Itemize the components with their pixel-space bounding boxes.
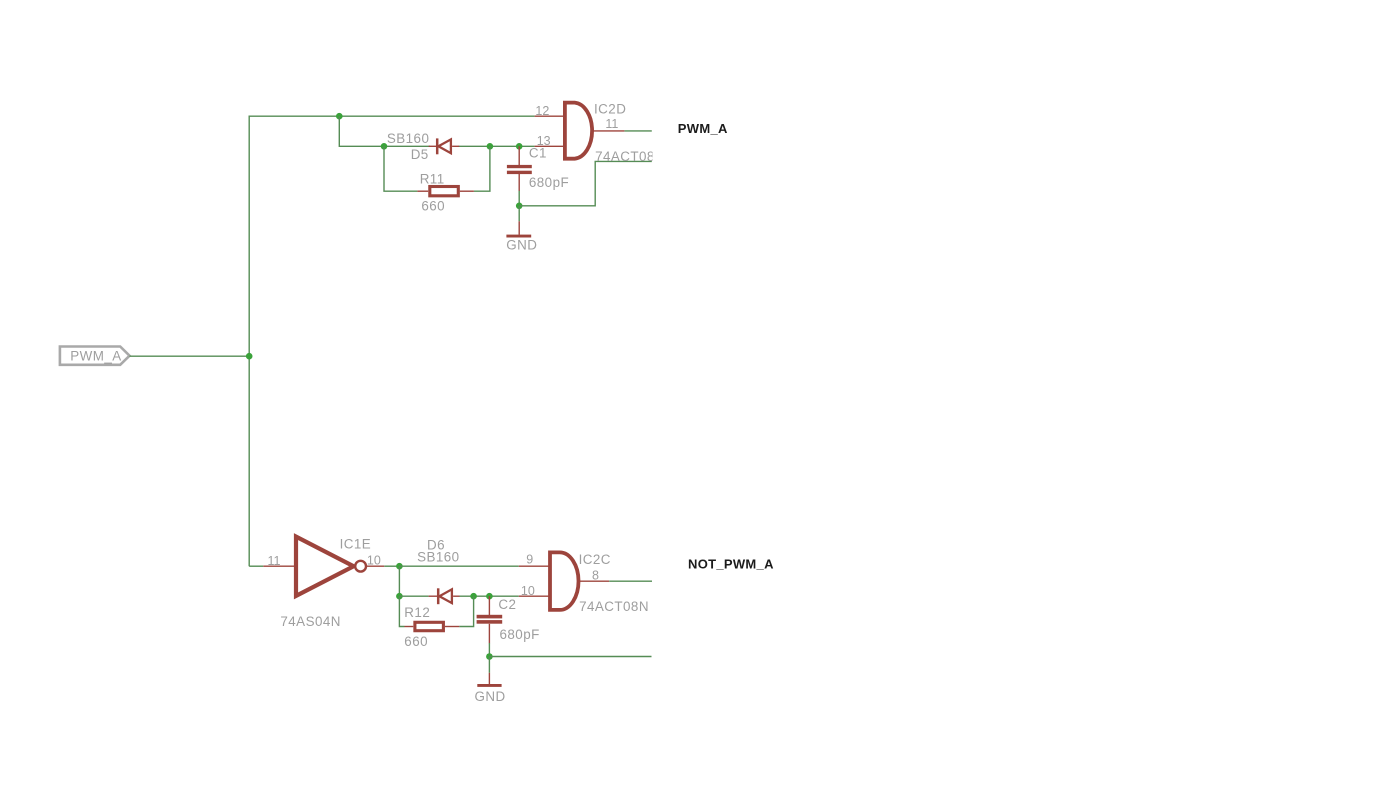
svg-text:IC2D: IC2D [594, 102, 626, 117]
svg-text:IC1E: IC1E [340, 536, 372, 551]
ground GND2 [475, 673, 506, 704]
svg-text:IC2C: IC2C [579, 552, 611, 567]
svg-text:680pF: 680pF [529, 175, 569, 190]
and-gate IC2D [535, 102, 665, 164]
wire inverter out to junction [384, 565, 399, 567]
svg-text:660: 660 [404, 634, 428, 649]
node junction F [396, 563, 403, 570]
node junction E [516, 203, 523, 210]
wire C1 node to gate lower net [519, 161, 652, 205]
diode D6 [417, 538, 459, 605]
wire long bottom net [489, 656, 651, 658]
wire D6 anode to pin 10 [460, 595, 519, 597]
wire main vertical bus [248, 116, 250, 567]
clip mask right edge [653, 145, 683, 170]
net label NOT_PWM_A output [688, 557, 774, 572]
svg-text:10: 10 [521, 584, 535, 598]
wire drop to D5 row [339, 116, 430, 146]
and-gate IC2C [519, 552, 649, 614]
net label PWM_A output [678, 121, 728, 136]
wire junction to D6 [399, 595, 428, 597]
net PWM_A input flag [60, 347, 130, 365]
svg-text:74ACT08N: 74ACT08N [579, 599, 649, 614]
wire to GND2 [488, 657, 490, 673]
wire R11 right riser [474, 146, 490, 191]
wire output PWM_A [624, 130, 651, 132]
wire D5 anode to pin 13 [459, 145, 535, 147]
svg-text:13: 13 [537, 134, 551, 148]
svg-text:SB160: SB160 [417, 550, 459, 565]
wire output NOT_PWM_A [609, 580, 652, 582]
svg-text:NOT_PWM_A: NOT_PWM_A [688, 557, 774, 572]
inverter IC1E [263, 536, 384, 629]
svg-text:12: 12 [535, 104, 549, 118]
svg-text:GND: GND [475, 689, 506, 704]
capacitor C1 [507, 145, 569, 190]
resistor R12 [404, 605, 459, 649]
diode D5 [387, 131, 459, 162]
wire drop to D6 row [398, 566, 400, 596]
node junction C [487, 143, 494, 150]
svg-text:74AS04N: 74AS04N [280, 614, 340, 629]
svg-text:GND: GND [506, 237, 537, 252]
wire top row to pin 12 [249, 115, 535, 117]
wire C1 bottom [518, 191, 520, 206]
wire R11 left riser [384, 146, 417, 191]
wire R12 right riser [459, 596, 473, 626]
svg-text:C2: C2 [498, 597, 516, 612]
svg-text:SB160: SB160 [387, 131, 429, 146]
capacitor C2 [477, 596, 540, 643]
svg-text:660: 660 [421, 199, 445, 214]
node junction J [486, 653, 493, 660]
wire to pin 9 [399, 565, 518, 567]
wire flag to junction [130, 355, 250, 357]
svg-text:PWM_A: PWM_A [70, 348, 121, 363]
ground GND1 [506, 221, 537, 252]
svg-text:11: 11 [605, 117, 618, 131]
svg-text:11: 11 [268, 554, 281, 568]
node junction D [516, 143, 523, 150]
node junction G [396, 593, 403, 600]
node junction I [486, 593, 493, 600]
node junction H [470, 593, 477, 600]
node junction PWM_A [246, 353, 253, 360]
svg-text:10: 10 [367, 553, 381, 567]
resistor R11 [417, 172, 474, 214]
svg-text:9: 9 [526, 552, 533, 566]
wire R12 left riser [399, 596, 404, 626]
svg-text:PWM_A: PWM_A [678, 121, 728, 136]
wire to GND1 [518, 206, 520, 222]
node junction A [336, 113, 343, 120]
svg-text:8: 8 [592, 569, 599, 583]
node junction B [381, 143, 388, 150]
svg-text:R11: R11 [420, 172, 445, 187]
svg-text:R12: R12 [404, 605, 430, 620]
svg-text:680pF: 680pF [500, 627, 540, 642]
wire C2 bottom [488, 643, 490, 657]
wire to inverter input [249, 565, 263, 567]
svg-text:D5: D5 [411, 147, 429, 162]
